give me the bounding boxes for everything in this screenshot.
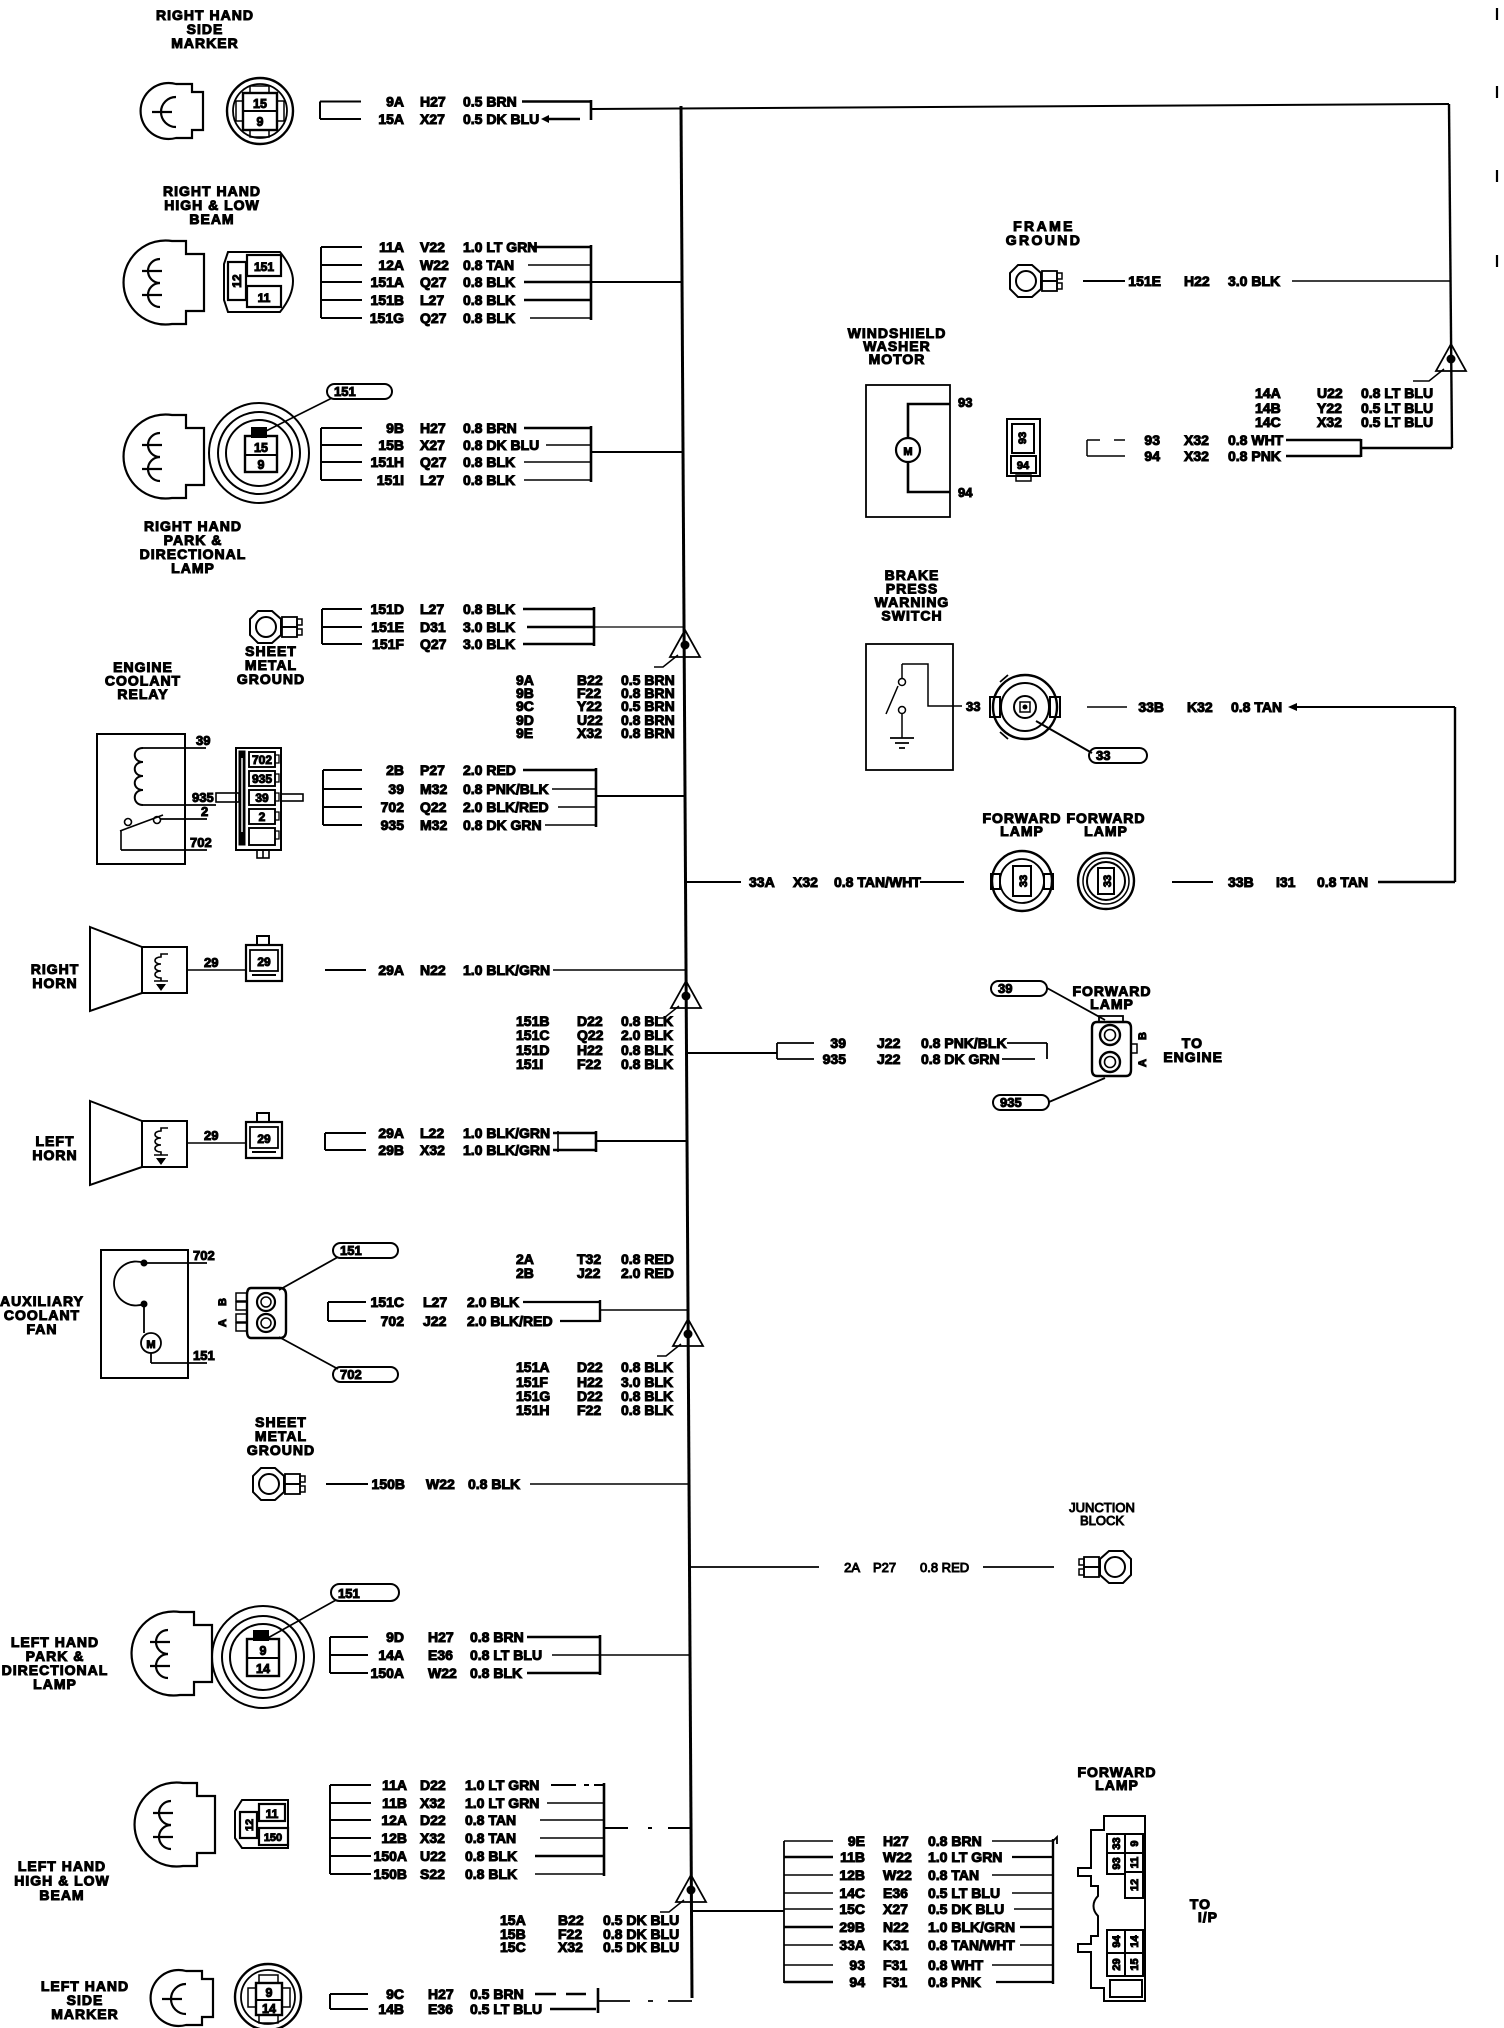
svg-text:1.0 LT GRN: 1.0 LT GRN [928, 1849, 1002, 1865]
svg-text:L27: L27 [420, 292, 444, 308]
svg-text:0.8 LT BLU: 0.8 LT BLU [470, 1647, 542, 1663]
svg-text:93: 93 [1111, 1857, 1123, 1869]
svg-text:151I: 151I [516, 1056, 543, 1072]
svg-text:0.8 BLK: 0.8 BLK [621, 1402, 673, 1418]
svg-text:2.0 BLK/RED: 2.0 BLK/RED [463, 799, 549, 815]
svg-text:15: 15 [1129, 1958, 1141, 1970]
svg-text:A: A [217, 1319, 229, 1327]
svg-text:12A: 12A [378, 257, 404, 273]
svg-text:K32: K32 [1187, 699, 1213, 715]
svg-text:E36: E36 [883, 1885, 908, 1901]
svg-text:LAMP: LAMP [171, 560, 215, 576]
svg-text:150A: 150A [371, 1665, 404, 1681]
svg-text:29A: 29A [378, 962, 404, 978]
svg-text:BEAM: BEAM [189, 211, 234, 227]
svg-text:LAMP: LAMP [1090, 996, 1134, 1012]
svg-text:29B: 29B [839, 1919, 865, 1935]
svg-text:151: 151 [338, 1586, 360, 1601]
svg-text:33: 33 [1111, 1837, 1123, 1849]
svg-text:0.8 TAN/WHT: 0.8 TAN/WHT [928, 1937, 1015, 1953]
svg-text:2: 2 [201, 804, 208, 819]
svg-text:D22: D22 [420, 1777, 446, 1793]
svg-text:M: M [146, 1339, 155, 1351]
svg-text:0.8 BLK: 0.8 BLK [463, 292, 515, 308]
svg-text:14A: 14A [1255, 385, 1281, 401]
svg-text:0.8 BLK: 0.8 BLK [621, 1359, 673, 1375]
svg-text:0.5 DK BLU: 0.5 DK BLU [603, 1939, 679, 1955]
svg-text:2.0 BLK/RED: 2.0 BLK/RED [467, 1313, 553, 1329]
svg-text:151F: 151F [372, 636, 404, 652]
svg-text:F22: F22 [577, 1056, 601, 1072]
svg-text:0.8 BLK: 0.8 BLK [463, 601, 515, 617]
svg-text:33B: 33B [1228, 874, 1254, 890]
svg-text:14: 14 [262, 2002, 276, 2016]
svg-text:29: 29 [1111, 1958, 1123, 1970]
svg-text:9: 9 [1129, 1840, 1141, 1846]
svg-text:U22: U22 [420, 1848, 446, 1864]
svg-text:151A: 151A [516, 1359, 549, 1375]
svg-text:H27: H27 [428, 1629, 454, 1645]
svg-text:33B: 33B [1138, 699, 1164, 715]
svg-text:0.8 BLK: 0.8 BLK [465, 1848, 517, 1864]
svg-text:S22: S22 [420, 1866, 445, 1882]
svg-text:X27: X27 [420, 437, 445, 453]
svg-text:3.0 BLK: 3.0 BLK [1228, 273, 1280, 289]
svg-text:9C: 9C [386, 1986, 404, 2002]
svg-text:0.8 PNK/BLK: 0.8 PNK/BLK [921, 1035, 1007, 1051]
svg-text:29B: 29B [378, 1142, 404, 1158]
svg-text:151A: 151A [371, 274, 404, 290]
svg-text:151B: 151B [371, 292, 404, 308]
svg-text:2A: 2A [844, 1560, 860, 1575]
svg-text:12: 12 [1129, 1879, 1141, 1891]
svg-text:12: 12 [230, 274, 244, 288]
svg-text:150: 150 [264, 1832, 282, 1844]
svg-text:Q27: Q27 [420, 274, 447, 290]
svg-text:12A: 12A [381, 1812, 407, 1828]
svg-text:702: 702 [381, 1313, 405, 1329]
svg-text:151I: 151I [377, 472, 404, 488]
svg-text:29: 29 [204, 1128, 218, 1143]
svg-text:1.0 BLK/GRN: 1.0 BLK/GRN [463, 962, 550, 978]
svg-text:0.8 RED: 0.8 RED [920, 1560, 969, 1575]
svg-text:0.8 DK BLU: 0.8 DK BLU [463, 437, 539, 453]
svg-text:LAMP: LAMP [1095, 1777, 1139, 1793]
svg-text:12B: 12B [839, 1867, 865, 1883]
svg-text:151E: 151E [371, 619, 404, 635]
svg-text:0.8 BLK: 0.8 BLK [470, 1665, 522, 1681]
svg-text:P27: P27 [873, 1560, 896, 1575]
svg-text:HORN: HORN [32, 975, 77, 991]
svg-text:0.8 BRN: 0.8 BRN [928, 1833, 982, 1849]
svg-text:151: 151 [334, 384, 356, 399]
svg-text:1.0 LT GRN: 1.0 LT GRN [465, 1795, 539, 1811]
svg-text:2.0 RED: 2.0 RED [463, 762, 516, 778]
svg-text:U22: U22 [1317, 385, 1343, 401]
svg-text:151H: 151H [371, 454, 404, 470]
svg-text:L27: L27 [423, 1294, 447, 1310]
svg-text:0.8 BRN: 0.8 BRN [621, 725, 675, 741]
svg-text:9A: 9A [386, 94, 404, 110]
svg-text:0.8 BRN: 0.8 BRN [463, 420, 517, 436]
svg-text:W22: W22 [428, 1665, 457, 1681]
svg-text:11: 11 [266, 1807, 279, 1821]
svg-text:D22: D22 [577, 1359, 603, 1375]
svg-text:9: 9 [266, 1986, 273, 2000]
svg-text:151H: 151H [516, 1402, 549, 1418]
svg-text:BEAM: BEAM [39, 1887, 84, 1903]
svg-text:9: 9 [257, 115, 264, 129]
svg-text:29: 29 [204, 955, 218, 970]
svg-text:151: 151 [254, 260, 274, 274]
svg-text:A: A [1137, 1059, 1149, 1067]
svg-text:0.8 TAN: 0.8 TAN [928, 1867, 979, 1883]
svg-text:151D: 151D [371, 601, 404, 617]
svg-text:29A: 29A [378, 1125, 404, 1141]
svg-text:702: 702 [381, 799, 405, 815]
svg-text:3.0 BLK: 3.0 BLK [463, 619, 515, 635]
svg-text:LAMP: LAMP [1084, 823, 1128, 839]
svg-text:GROUND: GROUND [247, 1442, 315, 1458]
svg-text:H27: H27 [883, 1833, 909, 1849]
svg-text:H27: H27 [428, 1986, 454, 2002]
svg-text:9D: 9D [386, 1629, 404, 1645]
svg-text:X32: X32 [558, 1939, 583, 1955]
svg-text:H22: H22 [1184, 273, 1210, 289]
svg-text:702: 702 [190, 835, 212, 850]
svg-text:L22: L22 [420, 1125, 444, 1141]
svg-text:33A: 33A [749, 874, 775, 890]
svg-text:MARKER: MARKER [51, 2006, 118, 2022]
svg-text:P27: P27 [420, 762, 445, 778]
svg-text:29: 29 [257, 955, 271, 969]
svg-text:E36: E36 [428, 1647, 453, 1663]
svg-text:2B: 2B [516, 1265, 534, 1281]
svg-text:J22: J22 [877, 1051, 901, 1067]
svg-text:Q22: Q22 [420, 799, 447, 815]
svg-text:E36: E36 [428, 2001, 453, 2017]
svg-text:151C: 151C [371, 1294, 404, 1310]
svg-text:M32: M32 [420, 781, 447, 797]
svg-text:D22: D22 [420, 1812, 446, 1828]
svg-text:93: 93 [1144, 432, 1160, 448]
svg-text:39: 39 [196, 733, 210, 748]
svg-text:X32: X32 [1317, 414, 1342, 430]
svg-text:0.8 BLK: 0.8 BLK [463, 454, 515, 470]
svg-text:93: 93 [958, 395, 972, 410]
svg-text:93: 93 [1017, 432, 1029, 444]
svg-text:33A: 33A [839, 1937, 865, 1953]
svg-text:GROUND: GROUND [1006, 232, 1083, 248]
svg-text:94: 94 [958, 485, 973, 500]
svg-text:H27: H27 [420, 94, 446, 110]
svg-text:935: 935 [192, 790, 214, 805]
svg-text:W22: W22 [883, 1867, 912, 1883]
svg-text:1.0 LT GRN: 1.0 LT GRN [463, 239, 537, 255]
svg-text:RELAY: RELAY [117, 686, 168, 702]
svg-text:14A: 14A [378, 1647, 404, 1663]
svg-text:29: 29 [257, 1132, 271, 1146]
svg-text:K31: K31 [883, 1937, 909, 1953]
svg-text:33: 33 [966, 699, 980, 714]
svg-text:0.8 LT BLU: 0.8 LT BLU [1361, 385, 1433, 401]
svg-text:N22: N22 [883, 1919, 909, 1935]
svg-text:L27: L27 [420, 601, 444, 617]
svg-text:11A: 11A [382, 1777, 407, 1793]
svg-text:J22: J22 [423, 1313, 447, 1329]
svg-text:F31: F31 [883, 1974, 907, 1990]
svg-text:J22: J22 [877, 1035, 901, 1051]
svg-text:2: 2 [259, 810, 266, 824]
svg-text:935: 935 [823, 1051, 847, 1067]
svg-text:151G: 151G [370, 310, 404, 326]
svg-text:0.5 LT BLU: 0.5 LT BLU [928, 1885, 1000, 1901]
svg-text:11: 11 [258, 291, 271, 305]
svg-text:11A: 11A [379, 239, 404, 255]
svg-text:X32: X32 [420, 1142, 445, 1158]
svg-text:0.8 PNK: 0.8 PNK [1228, 448, 1281, 464]
svg-text:151: 151 [193, 1348, 215, 1363]
svg-text:11B: 11B [840, 1849, 865, 1865]
svg-text:X32: X32 [420, 1795, 445, 1811]
svg-text:X32: X32 [793, 874, 818, 890]
svg-text:94: 94 [1111, 1935, 1123, 1948]
svg-text:SWITCH: SWITCH [881, 608, 942, 624]
svg-text:935: 935 [381, 817, 405, 833]
svg-text:2.0 BLK: 2.0 BLK [467, 1294, 519, 1310]
svg-text:9E: 9E [848, 1833, 865, 1849]
svg-text:B: B [1137, 1032, 1149, 1040]
svg-text:9: 9 [258, 458, 265, 472]
svg-text:I31: I31 [1276, 874, 1296, 890]
svg-text:BLOCK: BLOCK [1080, 1513, 1124, 1528]
svg-text:0.5 LT BLU: 0.5 LT BLU [1361, 414, 1433, 430]
svg-text:15A: 15A [378, 111, 404, 127]
svg-text:14C: 14C [839, 1885, 865, 1901]
svg-text:150B: 150B [374, 1866, 407, 1882]
svg-text:LAMP: LAMP [1000, 823, 1044, 839]
svg-text:X32: X32 [1184, 448, 1209, 464]
svg-text:F31: F31 [883, 1957, 907, 1973]
svg-text:935: 935 [252, 772, 272, 786]
svg-text:0.8 BRN: 0.8 BRN [470, 1629, 524, 1645]
svg-text:J22: J22 [577, 1265, 601, 1281]
svg-text:0.5 DK BLU: 0.5 DK BLU [463, 111, 539, 127]
svg-text:W22: W22 [420, 257, 449, 273]
svg-text:2B: 2B [386, 762, 404, 778]
svg-text:33: 33 [1096, 748, 1110, 763]
svg-text:Q22: Q22 [577, 1027, 604, 1043]
svg-text:W22: W22 [426, 1476, 455, 1492]
svg-text:2.0 RED: 2.0 RED [621, 1265, 674, 1281]
svg-text:14C: 14C [1255, 414, 1281, 430]
svg-text:151C: 151C [516, 1027, 549, 1043]
svg-text:0.8 TAN: 0.8 TAN [465, 1812, 516, 1828]
svg-text:93: 93 [849, 1957, 865, 1973]
svg-text:12: 12 [244, 1819, 256, 1831]
svg-text:94: 94 [1017, 460, 1030, 472]
svg-text:Q27: Q27 [420, 454, 447, 470]
svg-text:1.0 BLK/GRN: 1.0 BLK/GRN [463, 1142, 550, 1158]
svg-text:ENGINE: ENGINE [1163, 1049, 1223, 1065]
svg-text:0.8 BLK: 0.8 BLK [468, 1476, 520, 1492]
svg-text:11: 11 [1129, 1857, 1141, 1869]
svg-text:0.8 WHT: 0.8 WHT [1228, 432, 1284, 448]
svg-text:X32: X32 [1184, 432, 1209, 448]
svg-text:0.8 TAN/WHT: 0.8 TAN/WHT [834, 874, 921, 890]
svg-text:0.8 TAN: 0.8 TAN [463, 257, 514, 273]
svg-text:0.5 DK BLU: 0.5 DK BLU [928, 1901, 1004, 1917]
svg-text:1.0 BLK/GRN: 1.0 BLK/GRN [928, 1919, 1015, 1935]
svg-text:702: 702 [193, 1248, 215, 1263]
svg-text:39: 39 [830, 1035, 846, 1051]
svg-text:Q27: Q27 [420, 636, 447, 652]
svg-text:Q27: Q27 [420, 310, 447, 326]
svg-text:X27: X27 [420, 111, 445, 127]
svg-text:0.5 LT BLU: 0.5 LT BLU [470, 2001, 542, 2017]
svg-text:D31: D31 [420, 619, 446, 635]
svg-text:X32: X32 [420, 1830, 445, 1846]
svg-text:0.8 BLK: 0.8 BLK [463, 472, 515, 488]
svg-text:15B: 15B [378, 437, 404, 453]
svg-text:FAN: FAN [27, 1321, 58, 1337]
svg-text:33: 33 [1102, 875, 1114, 887]
svg-text:39: 39 [255, 791, 269, 805]
svg-text:F22: F22 [577, 1402, 601, 1418]
svg-text:15: 15 [253, 97, 267, 111]
svg-text:N22: N22 [420, 962, 446, 978]
svg-text:0.8 TAN: 0.8 TAN [1317, 874, 1368, 890]
svg-text:14: 14 [1129, 1935, 1141, 1948]
svg-text:12B: 12B [381, 1830, 407, 1846]
svg-text:15C: 15C [500, 1939, 526, 1955]
svg-text:1.0 BLK/GRN: 1.0 BLK/GRN [463, 1125, 550, 1141]
svg-text:H27: H27 [420, 420, 446, 436]
svg-text:0.8 BLK: 0.8 BLK [465, 1866, 517, 1882]
svg-text:9E: 9E [516, 725, 533, 741]
svg-text:B: B [217, 1298, 229, 1306]
svg-text:33: 33 [1018, 875, 1030, 887]
svg-text:1.0 LT GRN: 1.0 LT GRN [465, 1777, 539, 1793]
svg-text:0.8 WHT: 0.8 WHT [928, 1957, 984, 1973]
svg-text:LAMP: LAMP [33, 1676, 77, 1692]
svg-text:0.8 TAN: 0.8 TAN [465, 1830, 516, 1846]
svg-text:9B: 9B [386, 420, 404, 436]
svg-text:W22: W22 [883, 1849, 912, 1865]
svg-text:0.5 BRN: 0.5 BRN [463, 94, 517, 110]
svg-text:14: 14 [256, 1662, 270, 1676]
svg-text:I/P: I/P [1198, 1909, 1218, 1925]
svg-text:0.8 DK GRN: 0.8 DK GRN [463, 817, 542, 833]
svg-text:HORN: HORN [32, 1147, 77, 1163]
svg-text:15C: 15C [839, 1901, 865, 1917]
svg-text:L27: L27 [420, 472, 444, 488]
svg-text:39: 39 [388, 781, 404, 797]
svg-text:9: 9 [260, 1644, 267, 1658]
svg-text:MARKER: MARKER [171, 35, 238, 51]
svg-text:3.0 BLK: 3.0 BLK [463, 636, 515, 652]
svg-text:702: 702 [340, 1367, 362, 1382]
svg-text:151: 151 [340, 1243, 362, 1258]
svg-text:X27: X27 [883, 1901, 908, 1917]
svg-text:GROUND: GROUND [237, 671, 305, 687]
svg-text:0.5 BRN: 0.5 BRN [470, 1986, 524, 2002]
svg-text:94: 94 [1144, 448, 1160, 464]
svg-text:150B: 150B [372, 1476, 405, 1492]
svg-text:0.8 PNK: 0.8 PNK [928, 1974, 981, 1990]
svg-text:151E: 151E [1128, 273, 1161, 289]
svg-text:935: 935 [1000, 1095, 1022, 1110]
svg-text:V22: V22 [420, 239, 445, 255]
svg-text:X32: X32 [577, 725, 602, 741]
svg-text:MOTOR: MOTOR [869, 351, 926, 367]
svg-text:702: 702 [252, 753, 272, 767]
svg-text:0.8 BLK: 0.8 BLK [463, 274, 515, 290]
svg-text:2.0 BLK: 2.0 BLK [621, 1027, 673, 1043]
svg-text:0.8 DK GRN: 0.8 DK GRN [921, 1051, 1000, 1067]
svg-text:39: 39 [998, 981, 1012, 996]
svg-text:0.8 BLK: 0.8 BLK [621, 1056, 673, 1072]
svg-text:0.8 TAN: 0.8 TAN [1231, 699, 1282, 715]
svg-text:M: M [903, 446, 912, 458]
svg-text:94: 94 [849, 1974, 865, 1990]
svg-text:M32: M32 [420, 817, 447, 833]
svg-text:11B: 11B [382, 1795, 407, 1811]
svg-text:15: 15 [254, 441, 268, 455]
svg-text:0.8 PNK/BLK: 0.8 PNK/BLK [463, 781, 549, 797]
svg-text:150A: 150A [374, 1848, 407, 1864]
svg-text:14B: 14B [378, 2001, 404, 2017]
svg-text:0.8 BLK: 0.8 BLK [463, 310, 515, 326]
